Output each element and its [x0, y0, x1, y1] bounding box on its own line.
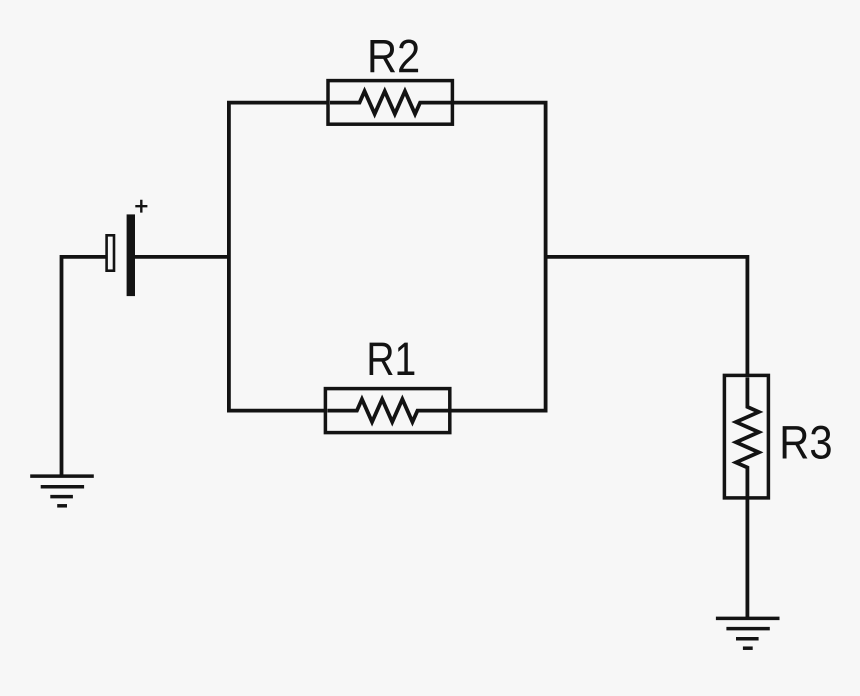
ground (right) [716, 618, 780, 648]
ground (left) [30, 476, 94, 506]
wire [746, 498, 750, 618]
wire [62, 257, 107, 476]
label R1 [370, 343, 415, 375]
label R3 [783, 426, 831, 459]
resistor R2 [328, 81, 452, 125]
battery + polarity mark [135, 200, 147, 213]
resistor R3 [724, 375, 768, 498]
wire [135, 255, 229, 259]
battery positive plate [127, 214, 135, 296]
battery negative plate [107, 235, 114, 270]
wire [546, 257, 748, 376]
wire [229, 103, 328, 411]
resistor R1 [325, 389, 449, 433]
wire [449, 103, 545, 411]
label R2 [370, 39, 418, 72]
battery B1 [107, 200, 148, 296]
